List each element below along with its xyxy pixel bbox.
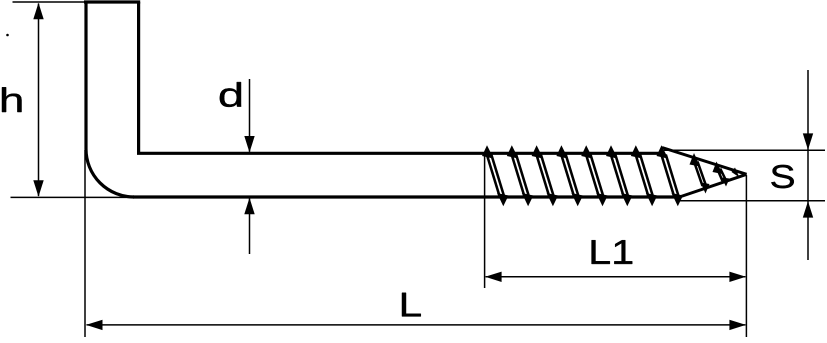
h arrow down [33, 180, 43, 197]
thread stripe 4 [556, 145, 583, 206]
stray dot mark [6, 34, 9, 37]
hook left edge with fillet into shank bottom [86, 2, 134, 197]
tip extension line [745, 175, 747, 337]
thread stripe 10 (on cone) [713, 162, 730, 187]
S arrow up [803, 201, 813, 218]
thread stripe 5 [581, 145, 608, 206]
crest line bottom (S extension) [679, 200, 825, 202]
shank bottom line [133, 195, 677, 198]
L dimension line [87, 324, 746, 326]
L1 arrow left [485, 272, 502, 282]
label h [2, 87, 22, 112]
h bottom extension line [11, 196, 213, 198]
d dimension line upper [249, 79, 251, 152]
thread stripe 1 [482, 145, 509, 206]
thread stripe 3 [532, 145, 559, 206]
label L1 [592, 240, 633, 264]
hook right edge [137, 2, 140, 153]
thread stripe 7 [631, 145, 658, 206]
h top extension line [13, 1, 85, 3]
S arrow down [803, 133, 813, 150]
d dimension line lower [249, 198, 251, 254]
label L [402, 293, 421, 317]
L left extension line [84, 150, 86, 337]
thread stripe 9 (on cone) [690, 153, 710, 194]
label d [220, 82, 241, 107]
thread stripe 8 [657, 145, 684, 206]
L1 left extension line [484, 155, 486, 288]
shank top line [137, 152, 664, 155]
L1 arrow right [729, 272, 746, 282]
label S [771, 165, 794, 188]
thread stripe 11 (tiny, near tip) [732, 168, 740, 178]
cone upper edge [662, 148, 747, 175]
crest line top (S extension) [664, 149, 825, 151]
h arrow up [33, 3, 43, 20]
d arrow down [244, 136, 254, 153]
S dimension line [807, 70, 809, 260]
L1 dimension line [486, 276, 746, 278]
L arrow left [86, 320, 103, 330]
L arrow right [729, 320, 746, 330]
thread stripe 6 [606, 145, 633, 206]
d arrow up [244, 198, 254, 215]
thread stripe 2 [507, 145, 534, 206]
hook top cap line [84, 0, 140, 3]
cone lower edge [675, 174, 747, 198]
h dimension line [38, 4, 40, 197]
